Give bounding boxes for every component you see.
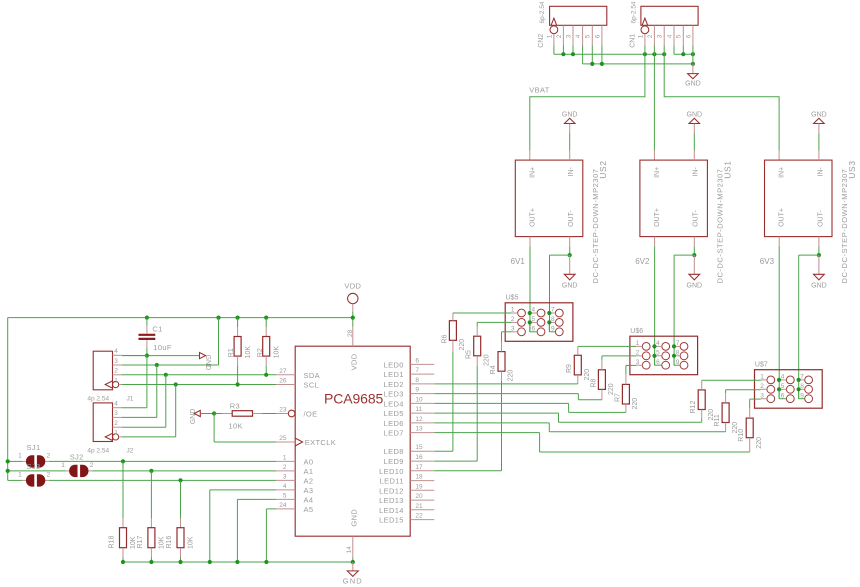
svg-text:1: 1 xyxy=(637,34,644,38)
svg-text:LED12: LED12 xyxy=(379,486,404,495)
svg-text:24: 24 xyxy=(279,502,287,509)
svg-text:US3: US3 xyxy=(847,160,857,178)
svg-text:1: 1 xyxy=(546,34,553,38)
pin 7 LED1 xyxy=(384,367,435,379)
pin 12 LED6 xyxy=(384,416,435,428)
svg-text:5: 5 xyxy=(283,492,287,499)
svg-text:9: 9 xyxy=(551,326,555,333)
wire CN1 pin6 to GND xyxy=(692,45,694,64)
svg-text:R16: R16 xyxy=(166,536,173,549)
wire J1 pin4 to GND row xyxy=(122,355,147,357)
wire SDA row xyxy=(122,373,276,377)
svg-text:IN+: IN+ xyxy=(654,167,661,178)
svg-text:LED7: LED7 xyxy=(384,429,404,438)
wire EXTCLK net xyxy=(214,414,276,443)
svg-text:R12: R12 xyxy=(690,401,697,414)
svg-text:LED10: LED10 xyxy=(379,467,404,476)
svg-text:GND: GND xyxy=(190,409,197,425)
svg-text:A4: A4 xyxy=(304,495,314,504)
svg-text:A5: A5 xyxy=(304,505,314,514)
LED connector U$7 xyxy=(755,361,823,408)
resistor R9 xyxy=(566,355,591,380)
wire U$7 pad2 to R11 top xyxy=(726,390,761,403)
svg-text:IN-: IN- xyxy=(817,167,824,177)
ground GND above US1 IN- xyxy=(687,112,703,161)
svg-text:220: 220 xyxy=(459,339,466,351)
svg-text:6: 6 xyxy=(685,34,692,38)
svg-text:10: 10 xyxy=(415,396,423,403)
wire VBAT to US3 IN+ xyxy=(664,54,779,160)
wire R6 pin top xyxy=(452,313,454,321)
svg-text:26: 26 xyxy=(279,378,287,385)
ground GND bottom xyxy=(343,562,363,586)
svg-text:CN2: CN2 xyxy=(538,34,545,48)
svg-text:6: 6 xyxy=(656,359,660,366)
ground GND below CN1 xyxy=(685,64,701,88)
resistor R3 xyxy=(214,402,276,431)
svg-text:4: 4 xyxy=(114,401,118,408)
wire U$7 pad3 to R10 top xyxy=(750,399,761,418)
resistor R17 xyxy=(137,471,165,562)
solder jumper SJ3 xyxy=(18,462,51,487)
svg-text:1: 1 xyxy=(760,374,764,381)
resistor R7 xyxy=(614,384,639,409)
pin 21 LED14 xyxy=(379,503,434,515)
wire U$5 pad3 to R4 top xyxy=(502,332,512,352)
svg-text:PCA9685: PCA9685 xyxy=(324,391,384,407)
wire CN1 pin2 drop xyxy=(653,45,655,54)
svg-text:R2: R2 xyxy=(257,348,264,357)
resistor R6 xyxy=(441,321,466,351)
wire R12 bottom to LED5 net xyxy=(434,410,701,423)
pin 27 SDA xyxy=(276,368,320,380)
svg-text:GND: GND xyxy=(687,283,703,290)
svg-text:14: 14 xyxy=(346,546,353,554)
wire 6V2 OUT+ to LED connector xyxy=(654,237,656,366)
wire R5 bottom to LED9 row xyxy=(434,356,477,461)
svg-text:4p 2.54: 4p 2.54 xyxy=(87,396,109,403)
svg-text:1: 1 xyxy=(18,471,22,478)
node row B junctions xyxy=(590,62,695,66)
svg-text:5: 5 xyxy=(531,316,535,323)
connector CN2 xyxy=(538,1,607,48)
pin 11 LED5 xyxy=(384,406,435,418)
pin 3 A2 xyxy=(276,473,313,485)
svg-text:OUT-: OUT- xyxy=(568,210,575,227)
svg-text:IN+: IN+ xyxy=(779,167,786,178)
svg-text:23: 23 xyxy=(279,407,287,414)
svg-text:1: 1 xyxy=(283,454,287,461)
svg-text:6V1: 6V1 xyxy=(511,257,526,266)
svg-text:OUT+: OUT+ xyxy=(779,208,786,227)
pin 13 LED7 xyxy=(384,426,435,438)
svg-text:8: 8 xyxy=(676,350,680,357)
svg-text:SJ2: SJ2 xyxy=(70,452,84,461)
wire R11 bottom to LED6 net xyxy=(434,423,725,432)
svg-text:8: 8 xyxy=(415,377,419,384)
svg-text:21: 21 xyxy=(415,503,423,510)
wire CN1 pin5 drop xyxy=(682,45,684,54)
svg-text:SJ1: SJ1 xyxy=(27,443,41,452)
svg-text:LED5: LED5 xyxy=(384,409,404,418)
wire J2 pin1 net vertical xyxy=(122,385,176,437)
wire U$5 pad2 to R5 top xyxy=(477,322,511,336)
svg-text:R1: R1 xyxy=(228,348,235,357)
svg-text:LED2: LED2 xyxy=(384,380,404,389)
svg-text:OUT-: OUT- xyxy=(817,210,824,227)
pin 25 EXTCLK xyxy=(276,435,336,447)
svg-text:18: 18 xyxy=(415,474,423,481)
svg-text:5: 5 xyxy=(656,350,660,357)
wire GND row B from CN2 pin4 xyxy=(583,45,693,64)
svg-text:5: 5 xyxy=(585,34,592,38)
svg-text:R8: R8 xyxy=(590,378,597,387)
svg-text:DC-DC-STEP-DOWN-MP2307: DC-DC-STEP-DOWN-MP2307 xyxy=(715,168,724,283)
pin 28 VDD xyxy=(347,318,354,347)
wire OUT- to GND junction 6V3 xyxy=(799,237,821,399)
svg-text:R5: R5 xyxy=(466,350,473,359)
svg-text:25: 25 xyxy=(279,435,287,442)
wire VDD rail xyxy=(8,317,353,319)
svg-text:J2: J2 xyxy=(127,447,134,454)
resistor R2 xyxy=(257,318,281,375)
svg-text:10K: 10K xyxy=(188,536,195,549)
wire U$7 pad1 to R12 top xyxy=(702,380,761,390)
svg-text:2: 2 xyxy=(90,462,94,469)
node row A junctions xyxy=(561,52,666,56)
svg-text:220: 220 xyxy=(756,437,763,449)
pin 16 LED9 xyxy=(384,454,435,466)
wire U$6 pad1 to R9 top xyxy=(578,346,636,355)
svg-text:20: 20 xyxy=(415,493,423,500)
svg-text:4p 2.54: 4p 2.54 xyxy=(87,447,109,454)
ground GND below 6V3 module xyxy=(811,255,827,290)
svg-text:3: 3 xyxy=(565,34,572,38)
ground GND right-pointing near C1 xyxy=(200,353,211,371)
svg-text:3: 3 xyxy=(760,392,764,399)
wire VBAT row A from CN2 pin1 xyxy=(554,45,664,54)
wire VDD to J pin3 net xyxy=(122,318,219,368)
wire OUT- to GND junction 6V1 xyxy=(550,237,572,332)
resistor R18 xyxy=(109,461,137,562)
svg-text:6: 6 xyxy=(415,357,419,364)
svg-text:17: 17 xyxy=(415,464,423,471)
svg-text:IN-: IN- xyxy=(568,167,575,177)
wire J2 pin4 net vertical xyxy=(122,356,147,408)
ground GND below 6V1 module xyxy=(562,255,578,290)
svg-text:8: 8 xyxy=(551,316,555,323)
svg-text:1: 1 xyxy=(114,377,118,384)
svg-text:10K: 10K xyxy=(229,421,243,430)
ground GND left-pointing near R3 xyxy=(190,409,216,425)
svg-text:US1: US1 xyxy=(722,160,732,178)
solder jumper SJ2 xyxy=(61,452,94,477)
svg-text:2: 2 xyxy=(47,471,51,478)
svg-text:6: 6 xyxy=(594,34,601,38)
svg-text:LED6: LED6 xyxy=(384,419,404,428)
svg-text:12: 12 xyxy=(415,416,423,423)
wire J2 pin3 net vertical xyxy=(122,365,157,417)
svg-text:1: 1 xyxy=(114,430,118,437)
svg-text:6: 6 xyxy=(531,326,535,333)
svg-text:LED0: LED0 xyxy=(384,360,404,369)
svg-text:4: 4 xyxy=(283,483,287,490)
svg-text:4: 4 xyxy=(781,374,785,381)
svg-text:IN+: IN+ xyxy=(530,167,537,178)
wire OUT- to GND junction 6V2 xyxy=(674,237,696,366)
svg-text:DC-DC-STEP-DOWN-MP2307: DC-DC-STEP-DOWN-MP2307 xyxy=(591,168,600,283)
svg-text:7: 7 xyxy=(800,374,804,381)
svg-text:OUT+: OUT+ xyxy=(654,208,661,227)
svg-text:4: 4 xyxy=(666,34,673,38)
svg-text:R11: R11 xyxy=(714,414,721,426)
svg-text:VDD: VDD xyxy=(344,282,361,291)
svg-text:R10: R10 xyxy=(738,429,745,442)
svg-text:8: 8 xyxy=(800,383,804,390)
svg-text:220: 220 xyxy=(632,398,639,410)
svg-text:3: 3 xyxy=(636,359,640,366)
pin 5 A4 xyxy=(276,492,313,504)
svg-text:10uF: 10uF xyxy=(153,343,172,352)
resistor R8 xyxy=(590,370,615,395)
pin 23 /OE xyxy=(276,407,317,419)
resistor R11 xyxy=(714,403,739,434)
wire R7 bottom to LED4 net xyxy=(434,403,626,412)
svg-text:3: 3 xyxy=(114,410,118,417)
svg-text:10K: 10K xyxy=(159,536,166,549)
pin 19 LED12 xyxy=(379,483,434,495)
svg-text:15: 15 xyxy=(415,444,423,451)
svg-text:SDA: SDA xyxy=(304,371,320,380)
wire A3 to ground rail xyxy=(210,490,276,562)
pin 6 LED0 xyxy=(384,357,435,369)
svg-text:A1: A1 xyxy=(304,467,314,476)
svg-text:5: 5 xyxy=(781,383,785,390)
pin 26 SCL xyxy=(276,378,319,390)
svg-text:VDD: VDD xyxy=(349,353,358,370)
svg-text:2: 2 xyxy=(114,368,118,375)
wire J2 pin2 net vertical xyxy=(122,375,166,427)
svg-text:LED15: LED15 xyxy=(379,516,404,525)
svg-text:6p-2.54: 6p-2.54 xyxy=(631,1,638,23)
svg-text:2: 2 xyxy=(556,34,563,38)
svg-text:LED14: LED14 xyxy=(379,506,404,515)
svg-text:LED11: LED11 xyxy=(380,477,404,486)
svg-text:R4: R4 xyxy=(490,365,497,374)
svg-text:LED13: LED13 xyxy=(379,496,404,505)
svg-text:6V2: 6V2 xyxy=(635,257,650,266)
svg-text:SCL: SCL xyxy=(304,381,320,390)
resistor R1 xyxy=(228,318,252,385)
pin 22 LED15 xyxy=(379,513,434,525)
svg-text:2: 2 xyxy=(283,464,287,471)
dc-dc module US3 xyxy=(765,160,858,283)
svg-text:4: 4 xyxy=(656,340,660,347)
svg-text:5: 5 xyxy=(676,34,683,38)
svg-text:R7: R7 xyxy=(614,393,621,402)
wire A4 to ground rail xyxy=(237,499,276,562)
wire R4 bottom to LED10 row xyxy=(434,371,501,471)
wire GND row to ground arrow xyxy=(122,354,200,358)
wire 6V1 OUT+ to LED connector xyxy=(529,237,531,332)
pin 14 GND xyxy=(346,536,353,562)
wire CN1 pin4 to row A right segment xyxy=(674,45,693,54)
node VDD rail junctions xyxy=(145,316,355,320)
wire left VDD drop to jumpers xyxy=(7,318,9,481)
svg-text:3: 3 xyxy=(657,34,664,38)
svg-text:R3: R3 xyxy=(230,402,240,411)
svg-text:LED9: LED9 xyxy=(384,457,404,466)
svg-text:27: 27 xyxy=(279,368,287,375)
svg-text:GND: GND xyxy=(343,577,363,586)
svg-text:R17: R17 xyxy=(137,536,144,549)
resistor R5 xyxy=(466,336,491,366)
svg-text:A3: A3 xyxy=(304,486,314,495)
ground GND above US2 IN- xyxy=(562,112,578,161)
svg-text:CN1: CN1 xyxy=(629,34,636,48)
svg-text:GND: GND xyxy=(562,283,578,290)
svg-text:GND: GND xyxy=(811,283,827,290)
pin 1 A0 xyxy=(276,454,313,466)
dc-dc module US2 xyxy=(515,160,608,283)
LED connector U$5 xyxy=(505,294,573,341)
wire U$6 pad3 to R7 top xyxy=(626,365,636,384)
resistor R10 xyxy=(738,418,763,449)
connector CN1 xyxy=(629,1,698,48)
svg-text:10K: 10K xyxy=(130,536,137,549)
svg-text:U$5: U$5 xyxy=(506,294,519,301)
connector J1 xyxy=(87,348,133,403)
pin 24 A5 xyxy=(276,502,313,514)
svg-text:3: 3 xyxy=(283,473,287,480)
wire SCL row xyxy=(122,382,276,386)
svg-text:LED3: LED3 xyxy=(384,390,404,399)
svg-text:10K: 10K xyxy=(274,346,281,359)
svg-text:4: 4 xyxy=(531,307,535,314)
svg-text:9: 9 xyxy=(800,392,804,399)
svg-text:22: 22 xyxy=(415,513,423,520)
svg-text:28: 28 xyxy=(347,329,354,337)
wire R9 bottom to LED2 row xyxy=(434,375,578,384)
wire CN2 pin5 drop xyxy=(591,45,593,64)
wire A2 row xyxy=(8,478,276,482)
svg-text:13: 13 xyxy=(415,426,423,433)
ground GND above US3 IN- xyxy=(811,112,827,161)
svg-text:16: 16 xyxy=(415,454,423,461)
power VDD symbol xyxy=(344,282,361,318)
svg-text:7: 7 xyxy=(676,340,680,347)
pin 10 LED4 xyxy=(384,396,435,408)
svg-text:6V3: 6V3 xyxy=(760,257,775,266)
solder jumper SJ1 xyxy=(18,443,51,468)
IC PCA9685 xyxy=(295,346,410,536)
wire CN2 pin3 drop xyxy=(572,45,574,54)
wire R10 bottom to LED7 net xyxy=(434,433,749,452)
svg-text:OUT+: OUT+ xyxy=(530,208,537,227)
wire R8 bottom to LED3 net xyxy=(434,389,602,399)
wire CN2 pin6 drop xyxy=(601,45,603,64)
svg-text:C1: C1 xyxy=(152,325,162,334)
wire CN1 pin1 drop xyxy=(644,45,646,54)
wire A0 row xyxy=(6,459,276,463)
svg-text:4: 4 xyxy=(114,348,118,355)
svg-text:U$7: U$7 xyxy=(755,361,768,368)
svg-text:3: 3 xyxy=(114,358,118,365)
svg-text:US2: US2 xyxy=(598,160,608,178)
wire VBAT to US1 IN+ xyxy=(653,54,655,160)
svg-text:DC-DC-STEP-DOWN-MP2307: DC-DC-STEP-DOWN-MP2307 xyxy=(840,168,849,283)
svg-text:EXTCLK: EXTCLK xyxy=(305,438,336,447)
ground GND below 6V2 module xyxy=(687,255,703,290)
svg-text:OUT-: OUT- xyxy=(693,210,700,227)
pin 15 LED8 xyxy=(384,444,435,456)
svg-text:GND: GND xyxy=(685,81,701,88)
svg-text:R9: R9 xyxy=(566,364,573,373)
svg-text:SJ3: SJ3 xyxy=(27,462,41,471)
wire A5 to ground rail xyxy=(266,509,276,562)
pin 17 LED10 xyxy=(379,464,434,476)
svg-text:2: 2 xyxy=(47,452,51,459)
svg-text:7: 7 xyxy=(551,307,555,314)
wire U$6 pad2 to R8 top xyxy=(602,356,636,370)
svg-text:220: 220 xyxy=(508,370,515,382)
LED connector U$6 xyxy=(630,328,698,375)
pin 4 A3 xyxy=(276,483,313,495)
capacitor C1 xyxy=(139,318,172,356)
svg-text:1: 1 xyxy=(61,462,65,469)
wire ground rail xyxy=(121,560,355,564)
wire A1 row xyxy=(6,469,276,473)
svg-text:1: 1 xyxy=(18,452,22,459)
svg-text:2: 2 xyxy=(647,34,654,38)
connector J2 xyxy=(87,401,133,455)
pin 8 LED2 xyxy=(384,377,435,389)
svg-text:LED4: LED4 xyxy=(384,399,404,408)
resistor R4 xyxy=(490,352,515,382)
svg-text:4: 4 xyxy=(575,34,582,38)
resistor R16 xyxy=(166,480,194,562)
svg-text:9: 9 xyxy=(415,387,419,394)
pin 9 LED3 xyxy=(384,387,435,399)
svg-text:GND: GND xyxy=(349,509,358,527)
svg-text:11: 11 xyxy=(415,406,422,413)
svg-text:6: 6 xyxy=(781,392,785,399)
node CN1 pin5/pin6 row A junctions xyxy=(681,52,695,56)
svg-text:2: 2 xyxy=(760,383,764,390)
wire 6V3 OUT+ to LED connector xyxy=(778,237,780,399)
svg-text:220: 220 xyxy=(483,354,490,366)
svg-text:10K: 10K xyxy=(245,346,252,359)
svg-text:R6: R6 xyxy=(441,334,448,343)
svg-text:LED1: LED1 xyxy=(384,370,404,379)
svg-text:7: 7 xyxy=(415,367,419,374)
svg-text:19: 19 xyxy=(415,483,423,490)
svg-text:A0: A0 xyxy=(304,457,314,466)
wire VBAT to US2 IN+ xyxy=(530,54,645,160)
dc-dc module US1 xyxy=(640,160,733,283)
pin 18 LED11 xyxy=(380,474,435,486)
svg-text:9: 9 xyxy=(676,359,680,366)
wire R6 bottom to LED8 row xyxy=(434,340,453,451)
svg-text:/OE: /OE xyxy=(304,410,318,419)
resistor R12 xyxy=(690,390,715,421)
svg-text:2: 2 xyxy=(114,420,118,427)
pin 2 A1 xyxy=(276,464,313,476)
svg-text:U$6: U$6 xyxy=(630,328,643,335)
svg-text:LED8: LED8 xyxy=(384,447,404,456)
svg-text:VBAT: VBAT xyxy=(529,85,550,94)
svg-text:J1: J1 xyxy=(127,396,134,403)
